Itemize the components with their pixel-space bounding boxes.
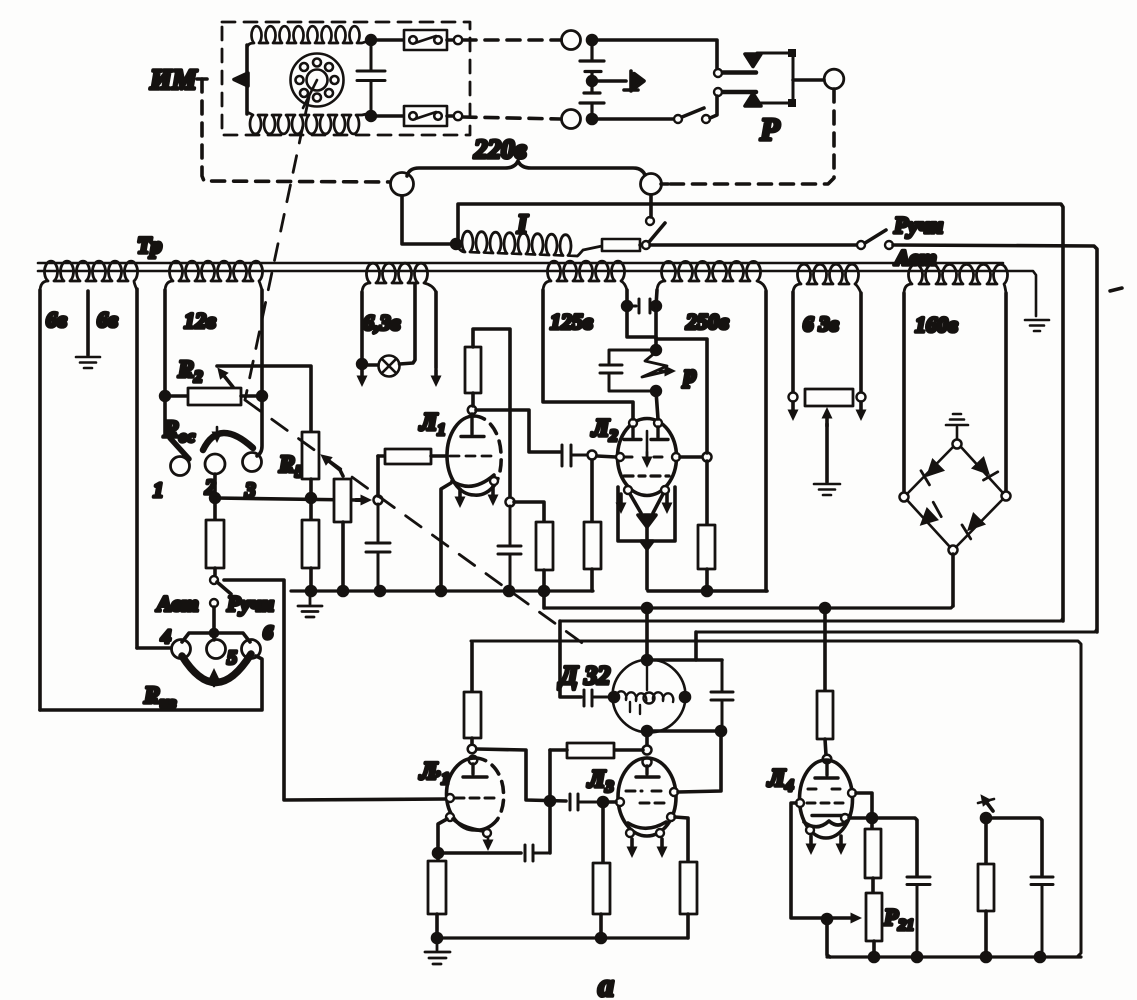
- wire 125v left side to Л2 left plate: [543, 290, 633, 419]
- dashed wire upper to terminal T1: [463, 38, 561, 42]
- pin circle Л2 grid left: [616, 453, 624, 461]
- svg-text:Тр: Тр: [137, 233, 162, 258]
- inductor motor bottom winding: [247, 112, 371, 134]
- pin circle Л3 right upper: [670, 788, 678, 796]
- anode bars Л2: [624, 427, 668, 440]
- ground bus upper: [291, 589, 593, 592]
- capacitor coupling Л1-Л2: [562, 445, 587, 466]
- wire Авт contact to terminal 5: [212, 607, 216, 640]
- vibrator Д32 circle: [613, 660, 686, 733]
- terminal circle 1: [171, 457, 190, 476]
- node junction R2 right: [258, 392, 267, 401]
- winding 125v humps: [543, 261, 627, 292]
- resistor dropping to supply bus: [536, 522, 553, 570]
- contact ticks Д32: [630, 702, 640, 714]
- terminal circle 4: [172, 640, 191, 659]
- resistor Л1' plate load: [470, 643, 474, 692]
- lamp indicator: [366, 363, 378, 367]
- tube socket ИМ: [291, 54, 344, 109]
- svg-text:Л,1: Л,1: [419, 758, 450, 788]
- pin circle Л4 right: [848, 789, 856, 797]
- lamp circuit: wire 6.3v left down: [360, 292, 364, 361]
- label 6.3v-2 pot: wire left: [791, 292, 795, 393]
- svg-text:160в: 160в: [915, 312, 958, 337]
- wire Д32 to Л3 top: [645, 733, 649, 746]
- node circle Л2 grid: [588, 451, 597, 460]
- resistor below R5: [309, 498, 313, 520]
- wire primary feed line y204: [458, 204, 1063, 621]
- wire 125v right side down: [627, 290, 656, 337]
- resistor R5: [302, 432, 319, 479]
- node junction bus-R5 chain: [307, 587, 316, 596]
- svg-text:5: 5: [227, 647, 237, 669]
- node junction R5 bottom: [307, 494, 316, 503]
- capacitor between 125v and 250v: [627, 299, 656, 313]
- pin circle Л1' grid: [446, 794, 454, 802]
- svg-text:Р: Р: [759, 111, 780, 147]
- inductor motor top winding: [247, 26, 371, 49]
- bus line3: [560, 618, 1063, 621]
- pin circle Л1' heater: [483, 829, 491, 837]
- wire cathode segment: [648, 589, 767, 593]
- inductor I primary choke: [456, 231, 602, 256]
- wiper R5 to resistor below: [325, 458, 343, 476]
- pin circles Л2 bottom: [624, 486, 632, 494]
- node junction: [588, 115, 597, 124]
- wire Л1 plate to coupling cap: [476, 410, 560, 452]
- resistor R2: [165, 394, 188, 398]
- svg-text:6: 6: [263, 622, 273, 644]
- pin circle Л1 cathode right: [490, 477, 498, 485]
- node junction below terminal 2: [211, 494, 220, 503]
- ground center tap: [76, 357, 100, 368]
- contact blade lower: [723, 90, 756, 95]
- node circle Л1' plate: [468, 745, 477, 754]
- cathode curves Л4: [804, 821, 847, 827]
- wire output RC top: [986, 814, 1042, 875]
- chassis ground arrow symbol: [592, 71, 638, 91]
- svg-text:Л1: Л1: [419, 409, 446, 439]
- wire Л3 cathode right to resistor: [675, 817, 688, 862]
- double triode Л2 envelope: [618, 419, 677, 496]
- contact small circle upper fixed: [714, 69, 722, 77]
- wiper arrow center tap: [825, 413, 829, 426]
- screen line with arrow Л2: [646, 431, 649, 462]
- bus line5: [471, 641, 1081, 956]
- wire 250v right side down: [764, 291, 768, 591]
- terminal circle 220v right: [641, 174, 662, 195]
- wire relay output: [793, 78, 824, 82]
- svg-text:6в: 6в: [97, 307, 118, 332]
- transformer core line upper: [38, 262, 1003, 265]
- wire Д32 top node right: [647, 658, 722, 662]
- wire Д32 bottom link: [647, 729, 721, 733]
- arrow wiper into node circle: [356, 498, 366, 502]
- node junction Д32 left: [610, 693, 619, 702]
- node junction Д32 bottom right: [717, 727, 726, 736]
- node junctions bottom bus: [870, 953, 879, 962]
- wire Л4 right pin loop: [856, 793, 872, 814]
- node junction bus2-Л4: [821, 604, 830, 613]
- svg-text:6,3в: 6,3в: [363, 310, 401, 335]
- contact circle pot left: [789, 393, 798, 402]
- node circle right grid: [703, 453, 712, 462]
- arrow lead below left: [791, 402, 795, 415]
- wiper thick contact to terminal 1: [170, 438, 189, 459]
- heater arrows Л2: [619, 494, 623, 508]
- contact small circle lower fixed: [714, 88, 722, 96]
- wire dashed from relay terminal down and left: [669, 89, 834, 184]
- resistor output RC: [984, 818, 988, 864]
- capacitor Д32 left: [584, 690, 612, 706]
- pin circle Л3 right lower: [667, 813, 675, 821]
- wire node to Л3 grid pin: [603, 800, 616, 804]
- node junction cathode resistor bottom: [703, 587, 712, 596]
- resistor Л1' cathode: [436, 855, 440, 861]
- node junction lamp left: [358, 360, 367, 369]
- wire line4 drop to Д32: [694, 632, 698, 660]
- wire Л3 grid node down: [601, 806, 605, 863]
- node junction primary left: [452, 240, 461, 249]
- capacitor across relay: [600, 350, 656, 391]
- wire 6v winding right to terminal 4: [137, 646, 171, 650]
- ground right of core: [1025, 320, 1049, 331]
- switch lever Авт-Ручн: [217, 582, 231, 594]
- triode Л1' envelope: [447, 758, 498, 830]
- switch pivot circle: [210, 576, 218, 584]
- winding 6.3v-2 humps: [793, 264, 861, 294]
- dashed enclosure box ИМ: [222, 22, 470, 135]
- pin circle Л4 top: [823, 755, 832, 764]
- pin circles Л3 bottom: [626, 829, 634, 837]
- capacitor lower of divider: [580, 93, 604, 119]
- wire node down to bottom bus: [827, 919, 830, 957]
- anode bar Л4: [815, 763, 838, 778]
- switch primary with lever: [642, 241, 650, 249]
- wire right grid node feed: [656, 339, 707, 453]
- heater arrows Л4: [809, 836, 813, 849]
- node junction R2 left: [161, 392, 170, 401]
- wire from switch to right bus: [893, 245, 1097, 632]
- node junction relay top: [652, 346, 661, 355]
- node junction cathode frame: [641, 541, 653, 549]
- wire relay to Л2 right plate: [656, 391, 658, 419]
- wire center tap to ground: [86, 291, 90, 355]
- wire feedback line: [438, 851, 521, 855]
- ground center tap pot: [814, 484, 840, 495]
- terminal circle 6: [242, 640, 261, 659]
- contact blade upper: [723, 70, 756, 75]
- svg-text:Л4: Л4: [767, 765, 794, 795]
- winding 6v-6v humps: [40, 261, 138, 292]
- coil Д32 left: [646, 662, 648, 690]
- pin circle Л4 left: [796, 799, 804, 807]
- switch contact box lower: [404, 106, 447, 126]
- terminal circle relay output: [824, 69, 844, 89]
- node junction cap right: [652, 302, 661, 311]
- relay coil р zigzag: [642, 352, 668, 377]
- wire 12v right side down: [257, 290, 262, 456]
- wire Д32 right cap to Л3 right grid: [678, 731, 721, 792]
- svg-text:Rиз: Rиз: [143, 683, 176, 712]
- node circle grid resistor junction: [643, 746, 652, 755]
- node junction Д32 bottom left: [643, 727, 652, 736]
- screen bar Л4: [812, 814, 850, 817]
- capacitor output RC: [1031, 877, 1053, 957]
- node junction bus lower: [597, 934, 606, 943]
- capacitor feedback: [525, 845, 548, 861]
- pin circle Л4 bottom left: [806, 826, 814, 834]
- node junction cap left: [623, 302, 632, 311]
- cathode arc Л1: [452, 475, 494, 486]
- wire 220v with brace: [407, 161, 645, 176]
- terminal small circle upper: [447, 38, 453, 42]
- wire bias line to grid node: [215, 498, 355, 500]
- node circle bridge top: [953, 440, 962, 449]
- resistor Л2 grid leak: [590, 460, 594, 522]
- node junction Д32 right: [681, 693, 690, 702]
- svg-text:а: а: [598, 967, 614, 1000]
- wire center tap to ground: [825, 424, 829, 482]
- wire 6v6v left side down: [38, 290, 42, 710]
- antenna arrow symbol: [984, 799, 993, 811]
- pin circle Л2 plate right: [654, 419, 662, 427]
- node junction top of capacitor: [367, 36, 376, 45]
- node junction Л3 grid: [599, 798, 608, 807]
- wire node to dropping resistor: [514, 502, 544, 522]
- svg-text:Р21: Р21: [883, 905, 914, 934]
- terminal circle 2: [205, 454, 225, 474]
- wire 6v winding left to terminal 6: [40, 656, 262, 710]
- svg-text:6 3в: 6 3в: [803, 312, 839, 336]
- resistor Л4 cathode upper: [870, 818, 874, 829]
- node junction on bracket: [211, 630, 218, 637]
- capacitor coupling Л1'-Л3: [570, 794, 598, 810]
- wire Л4 lower pin to node: [849, 816, 868, 820]
- node junction bus-cathode: [437, 587, 446, 596]
- pin circle Л3 plate: [643, 758, 652, 767]
- resistor Л1 grid: [378, 454, 385, 458]
- wire terminal2 down: [213, 474, 217, 495]
- terminal circle 220v left: [391, 173, 414, 196]
- node junction Л4 cathode top: [868, 814, 877, 823]
- svg-text:Rос: Rос: [162, 417, 196, 446]
- triode Л3 envelope: [618, 758, 676, 836]
- resistor R21: [871, 878, 875, 893]
- bridge arm top-left: [907, 447, 953, 494]
- svg-text:Л2: Л2: [591, 415, 618, 445]
- pin circle Л1' top: [469, 756, 478, 765]
- wire Л2 cathode down: [645, 543, 649, 589]
- winding 160v humps: [904, 264, 1008, 294]
- pin circle Л4 right lower: [841, 814, 849, 822]
- wiper arrow into R21: [831, 916, 856, 920]
- node junction: [588, 36, 597, 45]
- wire bus2 down to Л4: [823, 608, 827, 691]
- svg-text:Авт: Авт: [155, 591, 199, 616]
- wire left terminal down to primary: [402, 196, 452, 244]
- dashed mechanical link socket to R2: [245, 97, 309, 400]
- terminal small circle lower: [447, 114, 453, 118]
- wire grid resistor left down: [548, 750, 552, 853]
- wire plate supply over: [473, 329, 510, 497]
- relay P armature contacts: [745, 54, 761, 67]
- node circle bridge right: [1002, 492, 1011, 501]
- svg-text:R5: R5: [278, 452, 304, 481]
- wire to lower switch box: [371, 114, 404, 118]
- contact circle Авт: [210, 599, 218, 607]
- diode D1: [917, 458, 945, 486]
- capacitor ИМ box: [357, 40, 385, 116]
- arrow lead filament left: [360, 368, 364, 381]
- wire lamp to winding tap: [400, 284, 416, 364]
- resistor filament pot: [805, 389, 853, 406]
- wiper arrow R2: [221, 372, 233, 387]
- anode bar Л3: [636, 766, 659, 777]
- transformer core line lower: [38, 271, 1036, 316]
- wire ИМ to dashed link: [197, 77, 207, 81]
- resistor Л3 grid leak: [593, 863, 610, 914]
- supply bus2: [544, 606, 953, 608]
- node circle bridge bottom: [949, 546, 958, 555]
- terminal circle 5: [207, 640, 226, 659]
- node junction middle of divider: [588, 77, 597, 86]
- resistor Л1 plate load: [465, 347, 481, 393]
- wire grid resistor down to bias node: [376, 456, 380, 496]
- coil Д32 right: [653, 692, 673, 702]
- wire fixed contact up to terminal: [649, 195, 653, 217]
- node circle bridge left: [900, 493, 909, 502]
- grid dashes Л3: [626, 790, 667, 793]
- wire to upper switch box: [371, 38, 404, 42]
- terminal circle T1: [562, 31, 581, 50]
- wire node to Л2 grid: [597, 456, 616, 457]
- diode D3: [914, 502, 945, 533]
- svg-text:1: 1: [153, 478, 164, 502]
- svg-text:125в: 125в: [550, 309, 593, 334]
- svg-text:ИМ: ИМ: [149, 65, 198, 96]
- svg-text:Ручн: Ручн: [226, 591, 274, 616]
- wire Ручн position down to Л1' grid: [224, 580, 446, 800]
- node arrow into ИМ box: [234, 73, 248, 86]
- node junction bus-supply crossing: [540, 587, 549, 596]
- contact circle Д32 center: [644, 693, 655, 704]
- node junction bus-grid bias chain: [376, 587, 385, 596]
- dashed wire lower to terminal T2: [463, 117, 560, 119]
- node junction relay bottom: [652, 387, 661, 396]
- stray mark right margin: [1110, 288, 1122, 291]
- wire switched line y245 to Ручн switch: [650, 243, 857, 247]
- switch contact box upper: [404, 30, 447, 50]
- bridge arm top-right: [961, 447, 1003, 493]
- wire 6v6v right side down: [135, 289, 139, 648]
- contact circle pot right: [857, 393, 866, 402]
- ground above bridge: [946, 414, 968, 440]
- node junction cathode: [434, 849, 443, 858]
- wire Д32 top to bus2: [645, 608, 649, 660]
- arrow on Rиз arc: [213, 674, 216, 686]
- resistor Л2 cathode: [705, 461, 709, 525]
- resistor Л4 plate load: [817, 691, 833, 739]
- terminal circle T2: [562, 110, 581, 129]
- wire 6.3v right down with arrow: [434, 292, 438, 368]
- wire wiper resistor to bus: [341, 522, 345, 591]
- bridge arm bottom-left: [907, 500, 950, 547]
- pin circle Л2 plate left: [629, 419, 637, 427]
- wire switch in lower branch: [592, 117, 673, 121]
- node junction tap: [823, 915, 832, 924]
- diode D2: [971, 456, 999, 484]
- node junction output RC: [982, 814, 991, 823]
- winding 250v humps: [657, 261, 766, 292]
- ground bus bottom right: [827, 955, 1081, 958]
- wire resistor through bus1 to bus2: [542, 570, 546, 608]
- diode D4: [958, 512, 986, 540]
- node junction bus-decoupling cap: [505, 587, 514, 596]
- bus line4: [696, 629, 1097, 632]
- wire 160v right side down: [1004, 293, 1008, 491]
- wire Л4 grid loop left: [791, 803, 822, 918]
- resistor in R5 wiper branch: [334, 479, 351, 522]
- capacitor upper of divider: [580, 40, 604, 92]
- cathode curve Л1': [453, 819, 483, 831]
- cathode frame Л2: [618, 487, 675, 541]
- wire left side of motor winding: [245, 45, 249, 114]
- pin circle Л3 grid left: [616, 798, 624, 806]
- svg-text:6в: 6в: [46, 307, 67, 332]
- node junction bus-wiper resistor: [339, 587, 348, 596]
- pin circle Л1' cathode: [446, 813, 454, 821]
- cathode arc Л3: [628, 822, 666, 828]
- capacitor decoupling: [498, 506, 521, 591]
- heater arrow right Л1: [491, 486, 495, 500]
- svg-text:Д 32: Д 32: [558, 661, 610, 690]
- wire node to bypass cap: [872, 818, 917, 875]
- bridge arm bottom-right: [956, 499, 1003, 547]
- capacitor Д32 right: [711, 660, 733, 730]
- arrow on Rос arc: [216, 427, 219, 437]
- switch open with lever: [674, 115, 682, 123]
- terminal circle 3: [243, 453, 262, 472]
- node circle supply: [506, 498, 515, 507]
- tube Л4 envelope: [800, 760, 853, 838]
- node junction Д32 top: [643, 656, 652, 665]
- pin circle Л1 plate: [468, 406, 476, 414]
- node circle grid bias: [374, 496, 383, 505]
- wire Л1' plate to coupling cap: [477, 749, 566, 801]
- heater arrow left Л1: [458, 489, 462, 502]
- svg-text:250в: 250в: [685, 309, 729, 334]
- ground bus lower: [437, 936, 688, 939]
- wire top to relay contacts: [592, 40, 717, 68]
- heater arrow Л1': [487, 837, 490, 845]
- svg-text:R2: R2: [177, 357, 203, 386]
- winding 6.3v lamp humps: [362, 263, 436, 294]
- triode Л1 envelope: [447, 416, 496, 495]
- grid dashes Л2 upper: [624, 456, 666, 459]
- rheostat Rиз arc: [182, 654, 251, 683]
- wire Л1 cathode to bus: [441, 483, 451, 591]
- wire 250v left side down: [656, 290, 657, 348]
- heater arrows Л3: [630, 839, 634, 852]
- resistor below terminal 2: [213, 498, 217, 520]
- wire bridge output down: [951, 554, 955, 606]
- fuse: [602, 239, 640, 251]
- grid dashes Л1': [455, 797, 497, 800]
- resistor Л3 cathode: [680, 862, 697, 914]
- wire 160v left side down: [902, 293, 906, 492]
- arrow lead below right: [859, 402, 863, 415]
